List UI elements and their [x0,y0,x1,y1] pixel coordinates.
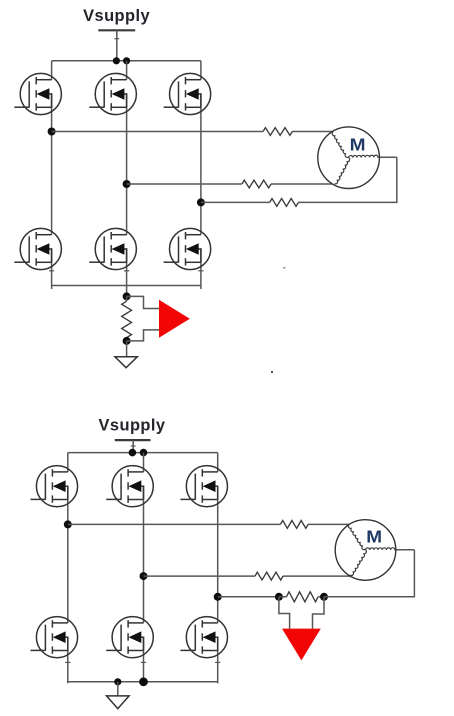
wire supply rail (top) [52,60,201,62]
resistor phase A (bottom) [280,521,308,529]
wire phase C to sense resistor (bottom) [218,596,279,598]
wire source lead low-side C (top) [200,248,202,289]
transistor Q3 high-side MOSFET (top) [164,73,211,114]
svg-text:Vsupply: Vsupply [99,416,166,434]
junction dot ground stem (bottom) [114,678,121,685]
source terminal tick C (bottom) [215,661,220,663]
wire phase column C (top) [200,93,202,234]
motor winding arm 2 (top) [349,155,380,158]
resistor shunt (top) [122,296,132,341]
stem tick mark (top) [114,38,119,40]
junction dot on supply rail 2 (top) [123,57,130,64]
speck artifact 2 [271,371,273,373]
amplifier red arrow (top) [159,300,190,338]
wire phase C to motor (top) [201,157,397,203]
wire drain lead high-side A (top) [51,61,53,80]
wire drain lead high-side A (bottom) [67,453,69,472]
wire ground stem (top) [126,341,128,357]
wire amp input + (bottom) [279,597,290,629]
wire phase column B (bottom) [143,486,145,623]
transistor Q1 high-side MOSFET (top) [14,73,61,114]
motor M (top) [318,127,380,189]
wire drain lead high-side B (top) [126,61,128,80]
source terminal tick B (bottom) [141,661,146,663]
wire Vsupply stem (top) [116,30,118,61]
resistor phase B (top) [242,180,271,188]
wire Vsupply stem (bottom) [132,440,134,453]
transistor Q12 low-side MOSFET (bottom) [180,617,227,658]
junction dot source bus B (bottom) [139,677,148,686]
source terminal tick C (top) [198,270,203,272]
resistor phase A (top) [263,128,292,136]
wire amp input + (top) [127,296,159,308]
wire phase A to motor (top) [52,131,334,133]
svg-text:M: M [350,135,366,155]
resistor phase C (top) [270,199,299,207]
svg-text:Vsupply: Vsupply [83,7,150,25]
motor winding arm 2 (bottom) [366,548,396,550]
source terminal tick A (top) [49,270,54,272]
wire ground stem (bottom) [117,682,119,696]
net label Vsupply (top) [83,7,150,25]
wire phase column A (bottom) [67,486,69,623]
wire source lead low-side A (bottom) [67,637,69,684]
transistor Q7 high-side MOSFET (bottom) [31,466,78,507]
node phase A junction dot (top) [48,128,56,136]
resistor phase B (bottom) [255,572,283,580]
svg-text:M: M [366,526,382,546]
wire source lead low-side B (top) [126,248,128,296]
wire source lead low-side C (bottom) [217,637,219,684]
ground symbol (top) [115,357,137,368]
junction dot sense left (bottom) [275,593,283,601]
wire phase A to motor (bottom) [68,523,350,525]
motor winding arm 3 (bottom) [350,550,366,576]
node phase C junction dot (top) [197,198,205,206]
transistor Q4 low-side MOSFET (top) [14,228,61,269]
wire source lead low-side B (bottom) [143,637,145,684]
wire phase column C (bottom) [217,486,219,623]
wire amp input - (bottom) [313,597,325,629]
junction dot on supply rail 1 (top) [113,57,120,64]
node phase B junction dot (bottom) [140,572,148,580]
wire phase column B (top) [126,93,128,234]
transistor Q6 low-side MOSFET (top) [164,228,211,269]
wire amp input - (top) [127,330,159,341]
transistor Q10 low-side MOSFET (bottom) [31,617,78,658]
transistor Q8 high-side MOSFET (bottom) [106,466,153,507]
junction dot shunt bottom (top) [123,337,131,345]
wire phase column A (top) [51,93,53,234]
junction dot on supply rail 1 (bottom) [129,449,137,457]
power supply bar symbol (top) [98,29,135,31]
motor winding arm 3 (top) [335,158,350,184]
stem tick mark (bottom) [131,445,136,447]
wire phase B to motor (top) [127,183,333,185]
resistor current sense (bottom) [279,592,324,602]
wire motor return (bottom) [324,550,414,598]
junction dot sense right (bottom) [320,593,328,601]
net label Vsupply (bottom) [99,416,166,434]
motor winding arm 1 (bottom) [348,524,365,550]
wire supply rail (bottom) [68,452,218,454]
wire drain lead high-side C (bottom) [217,453,219,472]
amplifier red arrow (bottom) [282,629,321,661]
transistor Q11 low-side MOSFET (bottom) [106,617,153,658]
wire phase B to motor (bottom) [144,575,351,577]
source terminal tick B (top) [124,270,129,272]
node phase B junction dot (top) [123,180,131,188]
junction dot on supply rail 2 (bottom) [140,449,148,457]
wire low-side source bus (top) [52,285,201,287]
power supply bar symbol (bottom) [115,439,151,441]
transistor Q5 low-side MOSFET (top) [89,228,136,269]
wire low-side source bus (bottom) [68,681,218,683]
motor M (bottom) [335,520,396,581]
junction dot shunt top (top) [123,292,131,300]
transistor Q2 high-side MOSFET (top) [89,73,136,114]
node phase C junction dot (bottom) [214,593,222,601]
wire source lead low-side A (top) [51,248,53,289]
wire drain lead high-side C (top) [200,61,202,80]
ground symbol (bottom) [107,696,130,709]
source terminal tick A (bottom) [65,661,70,663]
motor winding arm 1 (top) [332,132,348,158]
transistor Q9 high-side MOSFET (bottom) [180,466,227,507]
speck artifact 1 [283,267,286,269]
node phase A junction dot (bottom) [64,520,72,528]
wire drain lead high-side B (bottom) [143,453,145,472]
